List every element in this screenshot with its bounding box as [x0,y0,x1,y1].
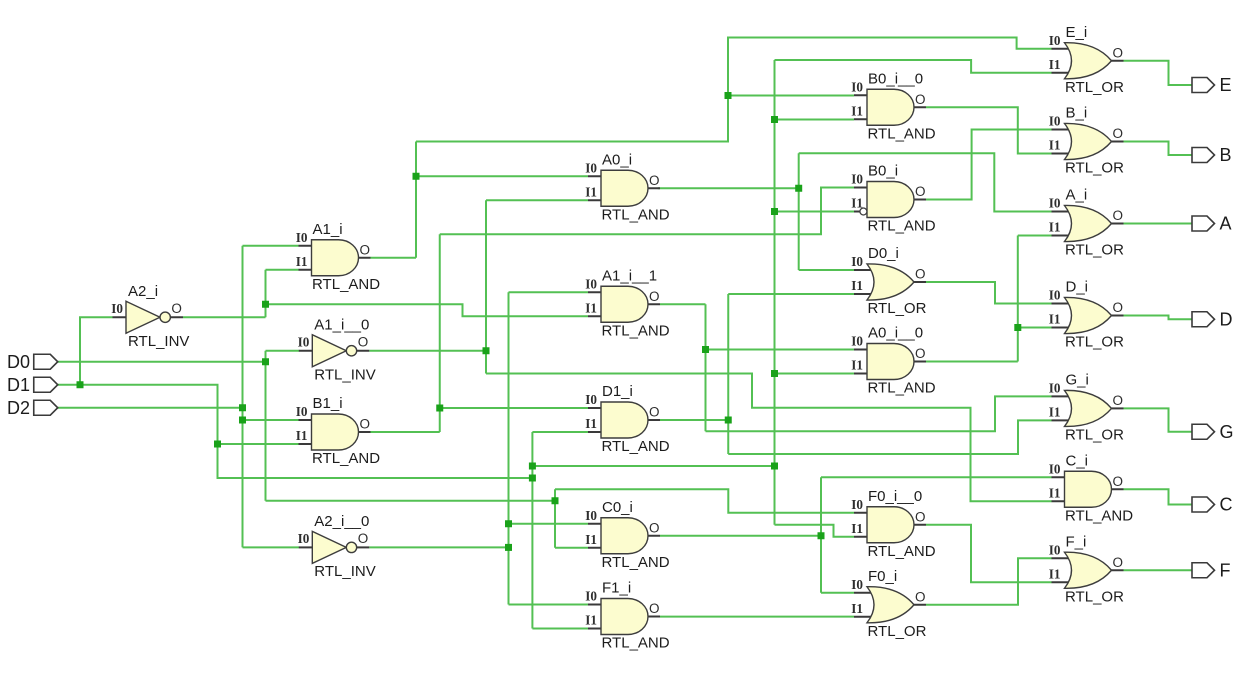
svg-text:I0: I0 [298,334,310,349]
svg-text:B_i: B_i [1066,105,1088,122]
OR gate B_i (RTL_OR) [1049,105,1124,177]
svg-text:I1: I1 [585,532,597,547]
wire net A1_i__0_out to A0_i I1 [486,199,588,201]
wire net F0_i__0 output to F_i I1 [926,525,1052,583]
svg-text:I0: I0 [585,160,597,175]
svg-text:O: O [915,267,926,282]
svg-text:I1: I1 [1049,404,1061,419]
svg-text:I1: I1 [296,428,308,443]
svg-text:I1: I1 [851,103,863,118]
svg-text:O: O [1113,555,1124,570]
svg-text:O: O [360,417,371,432]
F0_i pin I1 stub [854,616,873,618]
svg-text:RTL_AND: RTL_AND [602,206,670,223]
svg-text:RTL_OR: RTL_OR [1065,160,1124,177]
wire net D0 to C0_i I1 [555,547,588,549]
output port G [1192,422,1234,442]
A0_i__0 gate body [867,344,914,380]
svg-text:A0_i__0: A0_i__0 [868,325,923,342]
wire net C_i output to port C [1124,489,1193,504]
C0_i pin I1 stub [588,547,607,549]
A0_i pin I1 stub [588,199,607,201]
wire net D1_i_out to D0_i I1 [728,293,854,295]
D_i pin I1 stub [1052,327,1071,329]
A1_i pin I1 stub [299,269,318,271]
inverter A2_i__0 (RTL_INV) [298,513,376,580]
svg-text:A0_i: A0_i [602,151,632,168]
junction net A2_i__0_out at (508.5,523.75) [505,520,512,527]
wire net A_i output to port A [1124,223,1193,225]
wire net B1_i_out to D1_i I0 [440,407,588,409]
G_i pin I0 stub [1052,395,1071,397]
A2_i__0 pin I0 stub [299,546,313,548]
wire net A1_i__0_out to C_i I1 [486,374,1052,502]
AND gate B1_i (RTL_AND) [296,395,380,467]
wire net A2_i_out vertical x=265.5 [265,270,267,318]
svg-text:G: G [1220,422,1234,442]
A0_i pin O stub [648,187,660,189]
wire net A2_i_out to A1_i__1 I1 [266,304,589,316]
B0_i gate body [867,182,914,218]
wire net A0_i_out to D0_i I0 [799,269,854,271]
F0_i__0 pin I0 stub [854,512,873,514]
D_i pin I0 stub [1052,303,1071,305]
svg-text:I1: I1 [1049,566,1061,581]
svg-text:A_i: A_i [1066,187,1088,204]
input port D2 [7,398,58,418]
A1_i pin I0 stub [299,245,318,247]
junction net A0_i__0_out at (1017.8,327.5) [1014,324,1021,331]
A2_i pin I0 stub [113,316,127,318]
junction net D1 at (774.5,373.5) [771,370,778,377]
svg-text:I0: I0 [851,497,863,512]
B_i gate body [1065,123,1112,159]
wire net C0_i output [660,535,821,537]
B1_i gate body [312,414,359,450]
C0_i gate body [601,518,648,554]
svg-text:I1: I1 [1049,138,1061,153]
svg-text:RTL_OR: RTL_OR [1065,426,1124,443]
svg-text:RTL_AND: RTL_AND [1065,507,1133,524]
B1_i pin I0 stub [299,419,318,421]
G_i gate body [1065,390,1112,426]
wire net G_i output to port G [1124,408,1193,431]
wire net D1 to B0_i inverted input I1 [775,211,860,213]
svg-text:F0_i__0: F0_i__0 [868,488,922,505]
wire net D1 to B0_i__0 I1 [775,119,855,121]
junction net D1 at (774.5,466) [771,463,778,470]
wire net C0_i_out vertical x=821 [820,477,822,593]
junction net A1_i__1_out at (705.5,349.5) [702,346,709,353]
AND gate F1_i (RTL_AND) [585,580,669,652]
A2_i__0 gate body (triangle) [312,531,346,563]
A1_i pin O stub [359,257,371,259]
wire net A1_i_out to A0_i I0 [416,175,588,177]
svg-text:RTL_OR: RTL_OR [868,300,927,317]
junction net D1 at (532.4,478) [529,475,536,482]
wire net B_i output to port B [1124,142,1193,156]
wire net D0 vertical x=555 [554,489,556,548]
output port D [1192,309,1233,329]
output port A [1192,214,1232,234]
svg-text:I1: I1 [296,254,308,269]
F_i pin O stub [1112,569,1124,571]
svg-text:I0: I0 [296,404,308,419]
OR gate E_i (RTL_OR) [1049,24,1124,96]
junction net C0_i_out at (821,535.75) [818,532,825,539]
svg-text:O: O [649,173,660,188]
svg-text:I0: I0 [851,334,863,349]
svg-text:C_i: C_i [1066,452,1089,469]
wire net A1_i__0_out vertical x=486 [485,200,487,373]
A_i pin I0 stub [1052,211,1071,213]
C0_i pin I0 stub [588,523,607,525]
D1_i pin I1 stub [588,431,607,433]
D0_i gate body [867,264,914,300]
wire net D_i output to port D [1124,316,1193,320]
wire net D2 to inverter A2_i__0 input [243,546,300,548]
AND gate A0_i__0 (RTL_AND) [851,325,935,397]
D0_i pin I0 stub [854,269,873,271]
wire net A2_i__0_out to F1_i I0 [509,604,589,606]
wire net A1_i__1_out to A0_i__0 I0 [706,349,855,351]
AND gate B0_i__0 (RTL_AND) [851,70,935,142]
svg-text:O: O [1113,300,1124,315]
svg-text:I0: I0 [585,276,597,291]
B0_i__0 pin I0 stub [854,94,873,96]
A1_i__1 pin I0 stub [588,291,607,293]
svg-text:O: O [358,531,369,546]
wire net A2_i_out to A1_i I1 [266,269,299,271]
wire net D1 to D1_i I1 [532,431,588,433]
wire net A0_i__0 output [926,361,1018,363]
svg-text:O: O [915,589,926,604]
AND gate C0_i (RTL_AND) [585,499,669,571]
output port B [1192,145,1232,165]
junction net B1_i_out at (439.75,408) [436,405,443,412]
svg-text:D_i: D_i [1066,279,1089,296]
svg-text:I0: I0 [1049,33,1061,48]
input port D0 [7,352,58,372]
A1_i__1 pin I1 stub [588,315,607,317]
svg-text:I0: I0 [111,301,123,316]
junction net D1 at (774.5,211.5) [771,208,778,215]
output port E [1192,75,1232,95]
junction net A2_i__0_out at (508.5,547.4) [505,544,512,551]
svg-text:A1_i__1: A1_i__1 [602,267,657,284]
A_i pin I1 stub [1052,235,1071,237]
G_i pin O stub [1112,407,1124,409]
svg-text:O: O [649,601,660,616]
OR gate D0_i (RTL_OR) [851,245,926,317]
svg-text:I0: I0 [585,508,597,523]
svg-text:O: O [915,346,926,361]
B0_i__0 pin I1 stub [854,118,873,120]
svg-text:B: B [1220,145,1232,165]
AND gate D1_i (RTL_AND) [585,383,669,455]
svg-text:F_i: F_i [1066,533,1087,550]
wire net B0_i__0 output to B_i I1 [926,107,1052,153]
svg-text:I0: I0 [585,392,597,407]
svg-text:A2_i: A2_i [128,283,158,300]
E_i pin I1 stub [1052,72,1071,74]
A1_i__1 gate body [601,286,648,322]
svg-text:RTL_INV: RTL_INV [128,333,189,350]
wire net D1 strap to x=774.5 channel [532,465,774,467]
svg-text:I0: I0 [1049,114,1061,129]
A2_i__0 pin O stub [357,546,370,548]
E_i pin I0 stub [1052,48,1071,50]
svg-text:O: O [360,242,371,257]
C_i pin I0 stub [1052,476,1071,478]
wire net B1_i output [371,431,440,433]
F0_i pin I0 stub [854,592,873,594]
wire net D0 from port D0 [58,361,266,363]
svg-text:B0_i: B0_i [868,163,898,180]
svg-text:I1: I1 [1049,485,1061,500]
wire net D1_i_out vertical x=728.25 [727,294,729,454]
junction net D2 at (242.5,420) [239,417,246,424]
svg-text:D2: D2 [7,398,30,418]
OR gate D_i (RTL_OR) [1049,279,1124,351]
svg-text:RTL_AND: RTL_AND [868,218,936,235]
C_i pin O stub [1112,488,1124,490]
D_i gate body [1065,297,1112,333]
svg-text:I1: I1 [851,521,863,536]
svg-text:RTL_AND: RTL_AND [868,380,936,397]
wire net D1 to B1_i I1 [218,443,299,445]
svg-text:O: O [915,184,926,199]
F1_i pin I0 stub [588,604,607,606]
svg-text:O: O [1113,393,1124,408]
C_i pin I1 stub [1052,500,1071,502]
svg-text:RTL_AND: RTL_AND [602,322,670,339]
svg-text:I1: I1 [851,601,863,616]
svg-text:RTL_AND: RTL_AND [602,554,670,571]
svg-text:RTL_OR: RTL_OR [1065,588,1124,605]
F_i pin I0 stub [1052,557,1071,559]
wire net D1 to A0_i__0 I1 [775,373,855,375]
svg-text:I0: I0 [1049,542,1061,557]
wire net C0_i_out to C_i I0 [821,476,1052,478]
OR gate F_i (RTL_OR) [1049,533,1124,605]
svg-text:O: O [1113,45,1124,60]
junction net D0 at (265.5,361.75) [262,358,269,365]
svg-text:O: O [915,509,926,524]
wire net D1 to E_i I1 [775,60,1052,73]
D0_i pin O stub [914,281,926,283]
svg-text:I0: I0 [296,230,308,245]
A2_i output bubble [160,312,170,322]
svg-text:RTL_OR: RTL_OR [1065,79,1124,96]
D_i pin O stub [1112,315,1124,317]
wire net A2_i__0_out to C0_i I0 [509,523,589,525]
B0_i__0 pin O stub [914,106,926,108]
svg-text:I0: I0 [1049,196,1061,211]
wire net D2 to A1_i I0 [243,245,299,247]
svg-text:I1: I1 [851,358,863,373]
A1_i__0 gate body (triangle) [312,335,346,367]
svg-text:I0: I0 [1049,380,1061,395]
junction net A2_i_out at (265.5,304.25) [262,301,269,308]
wire net A0_i output [658,187,799,189]
svg-text:I1: I1 [1049,312,1061,327]
svg-text:D1_i: D1_i [602,383,633,400]
svg-text:D0_i: D0_i [868,245,899,262]
wire net D0 horizontal to x=555 [266,500,556,502]
junction net A1_i__0_out at (486,350.75) [483,347,490,354]
A0_i__0 pin I1 stub [854,373,873,375]
E_i pin O stub [1112,60,1124,62]
A1_i__0 pin O stub [357,350,370,352]
F1_i pin O stub [648,616,660,618]
B_i pin I0 stub [1052,129,1071,131]
wire net E_i output to port E [1124,61,1193,85]
wire net A0_i__0_out vertical x=1017.8 [1017,236,1019,362]
E_i gate body [1065,43,1112,79]
svg-text:A1_i__0: A1_i__0 [314,316,369,333]
svg-text:B0_i__0: B0_i__0 [868,70,923,87]
wire net B1_i_out to B0_i I0 [440,188,854,235]
wire net D2 to B1_i I0 [243,419,299,421]
wire net D1 vertical x=774.5 [774,60,776,525]
F0_i__0 gate body [867,507,914,543]
wire net A2_i__0_out vertical x=508.5 [508,292,510,604]
wire net A1_i__1 output [660,303,706,305]
A1_i__0 output bubble [346,346,356,356]
inverter A1_i__0 (RTL_INV) [298,316,376,383]
AND gate C_i (RTL_AND) [1049,452,1133,524]
svg-text:RTL_INV: RTL_INV [314,563,375,580]
F1_i pin I1 stub [588,628,607,630]
svg-text:I1: I1 [585,613,597,628]
wire net D1 from port D1 down to x=532 channel [58,385,533,478]
B0_i pin O stub [914,199,926,201]
svg-text:RTL_OR: RTL_OR [1065,334,1124,351]
svg-text:I1: I1 [585,184,597,199]
input port D1 [7,375,58,395]
wire net A1_i__1_out to G_i I0 [706,396,1052,431]
F0_i__0 pin O stub [914,524,926,526]
svg-text:A1_i: A1_i [313,221,343,238]
junction net D1 at (532.4,466) [529,463,536,470]
A_i pin O stub [1112,223,1124,225]
svg-text:O: O [358,334,369,349]
svg-text:A: A [1220,214,1232,234]
A_i gate body [1065,205,1112,241]
wire net F1_i output to F0_i I1 [660,616,854,618]
output port C [1192,495,1233,515]
svg-text:I0: I0 [585,589,597,604]
wire net A1_i__0 output (not D0) [369,350,486,352]
A0_i__0 pin O stub [914,361,926,363]
junction net D0 at (555,500.75) [552,497,559,504]
junction net D1 at (80,384.75) [77,381,84,388]
A0_i__0 pin I0 stub [854,349,873,351]
wire net A1_i_out to E_i I0 [416,38,1052,142]
wire net A0_i__0_out to D_i I1 [1018,327,1052,329]
svg-text:C0_i: C0_i [602,499,633,516]
A1_i__1 pin O stub [648,303,660,305]
wire net D1_i output [660,419,728,421]
wire net A0_i_out vertical x=798.7 [798,153,800,270]
wire net D0_i output to D_i I0 [926,282,1052,304]
A1_i__0 pin I0 stub [299,350,313,352]
junction net D1 at (774.5,119.5) [771,116,778,123]
junction net A1_i_out at (728,95.5) [725,92,732,99]
svg-text:I0: I0 [1049,461,1061,476]
output port F [1192,560,1231,580]
svg-text:O: O [1113,474,1124,489]
wire net D1 to F0_i__0 I1 [775,525,855,537]
B_i pin I1 stub [1052,153,1071,155]
G_i pin I1 stub [1052,419,1071,421]
D0_i pin I1 stub [854,293,873,295]
junction net D2 at (242.5,407.75) [239,404,246,411]
svg-text:I1: I1 [585,300,597,315]
svg-text:I0: I0 [1049,288,1061,303]
svg-text:G_i: G_i [1066,371,1089,388]
B1_i pin I1 stub [299,443,318,445]
B0_i__0 gate body [867,89,914,125]
svg-text:RTL_AND: RTL_AND [868,543,936,560]
wire net D0 to inverter A1_i__0 input [266,350,300,352]
A0_i gate body [601,170,648,206]
svg-text:O: O [1113,208,1124,223]
wire net A2_i__0 output (not D2) [369,546,508,548]
svg-text:RTL_AND: RTL_AND [868,125,936,142]
svg-text:I0: I0 [851,172,863,187]
wire net D2 from port D2 [58,407,243,409]
AND gate A1_i (RTL_AND) [296,221,380,293]
B0_i pin I0 stub [854,187,873,189]
AND gate F0_i__0 (RTL_AND) [851,488,935,560]
svg-text:F1_i: F1_i [602,580,631,597]
svg-text:I1: I1 [1049,220,1061,235]
wire net D2 vertical x=242.5 [242,246,244,548]
svg-text:I0: I0 [298,531,310,546]
wire net D0 vertical riser x=265.5 [265,351,267,501]
wire net A2_i__0_out to A1_i__1 I0 [509,291,589,293]
svg-text:O: O [1113,126,1124,141]
AND gate A1_i__1 (RTL_AND) [585,267,669,339]
D1_i pin O stub [648,419,660,421]
wire net C0_i_out to F0_i I0 [821,592,854,594]
A2_i pin O stub [170,316,183,318]
junction net D1_i_out at (728.25,420) [725,417,732,424]
B0_i inverted input bubble [860,208,867,215]
svg-text:F0_i: F0_i [868,568,897,585]
OR gate G_i (RTL_OR) [1049,371,1124,443]
C_i gate body [1065,471,1112,507]
B0_i pin I1 stub [854,211,860,213]
F_i pin I1 stub [1052,581,1071,583]
wire net D0 to F0_i__0 I0 [555,489,854,513]
svg-text:O: O [649,520,660,535]
svg-text:I0: I0 [851,79,863,94]
F0_i gate body [867,587,914,623]
svg-text:RTL_AND: RTL_AND [312,450,380,467]
wire net A1_i__1_out vertical x=705.5 [705,304,707,431]
wire net D1 vertical x=532.4 [531,432,533,629]
D1_i pin I0 stub [588,407,607,409]
svg-text:I1: I1 [851,196,863,211]
A0_i pin I0 stub [588,175,607,177]
svg-text:O: O [171,301,182,316]
wire net F0_i output to F_i I0 [926,558,1052,605]
wire net D1 to F1_i I1 [532,628,588,630]
svg-text:I1: I1 [1049,57,1061,72]
